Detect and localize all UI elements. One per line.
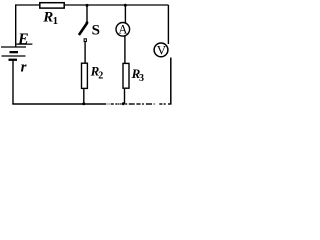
- switch S pivot blob: [86, 21, 89, 24]
- resistor R2: [82, 63, 88, 88]
- battery E short thick plate 2: [9, 59, 18, 61]
- wire switch to R2: [84, 42, 86, 63]
- battery E long plate 1: [1, 46, 26, 48]
- switch S blade: [79, 23, 87, 35]
- wire bottom solid segment: [12, 103, 106, 105]
- svg-text:V: V: [157, 43, 167, 58]
- wire R2 to bottom: [83, 89, 85, 104]
- node: junction dot R2 bottom: [82, 102, 85, 105]
- wire bottom dashed segment: [106, 103, 121, 105]
- svg-text:S: S: [92, 23, 100, 39]
- wire ammeter to R3: [124, 36, 126, 63]
- ammeter A: [116, 23, 130, 37]
- voltmeter V: [154, 43, 168, 57]
- wire R3 to bottom: [124, 89, 126, 104]
- resistor R3: [123, 63, 129, 88]
- wire left upper vertical: [15, 5, 17, 47]
- svg-text:2: 2: [98, 70, 103, 81]
- svg-text:r: r: [21, 60, 27, 76]
- svg-text:1: 1: [53, 15, 59, 27]
- resistor R1: [40, 3, 64, 8]
- wire switch top stub: [86, 5, 88, 22]
- svg-text:A: A: [118, 23, 127, 37]
- wire top horizontal: [15, 4, 169, 6]
- wire right lower vertical: [170, 58, 172, 105]
- node: junction dot switch branch: [86, 4, 89, 7]
- node: junction dot R3 bottom: [122, 102, 125, 105]
- battery E short thick plate 1: [10, 51, 19, 53]
- battery E long plate 2: [2, 55, 26, 57]
- svg-text:E: E: [17, 31, 29, 48]
- wire ammeter top stub: [124, 5, 126, 23]
- wire left lower vertical: [12, 61, 14, 104]
- switch S contact square: [84, 39, 86, 42]
- underline of E: [16, 43, 32, 45]
- wire right upper vertical: [167, 5, 169, 44]
- wire bottom dashed segment right: [125, 103, 171, 105]
- node: junction dot ammeter branch: [124, 4, 127, 7]
- svg-text:3: 3: [139, 73, 144, 84]
